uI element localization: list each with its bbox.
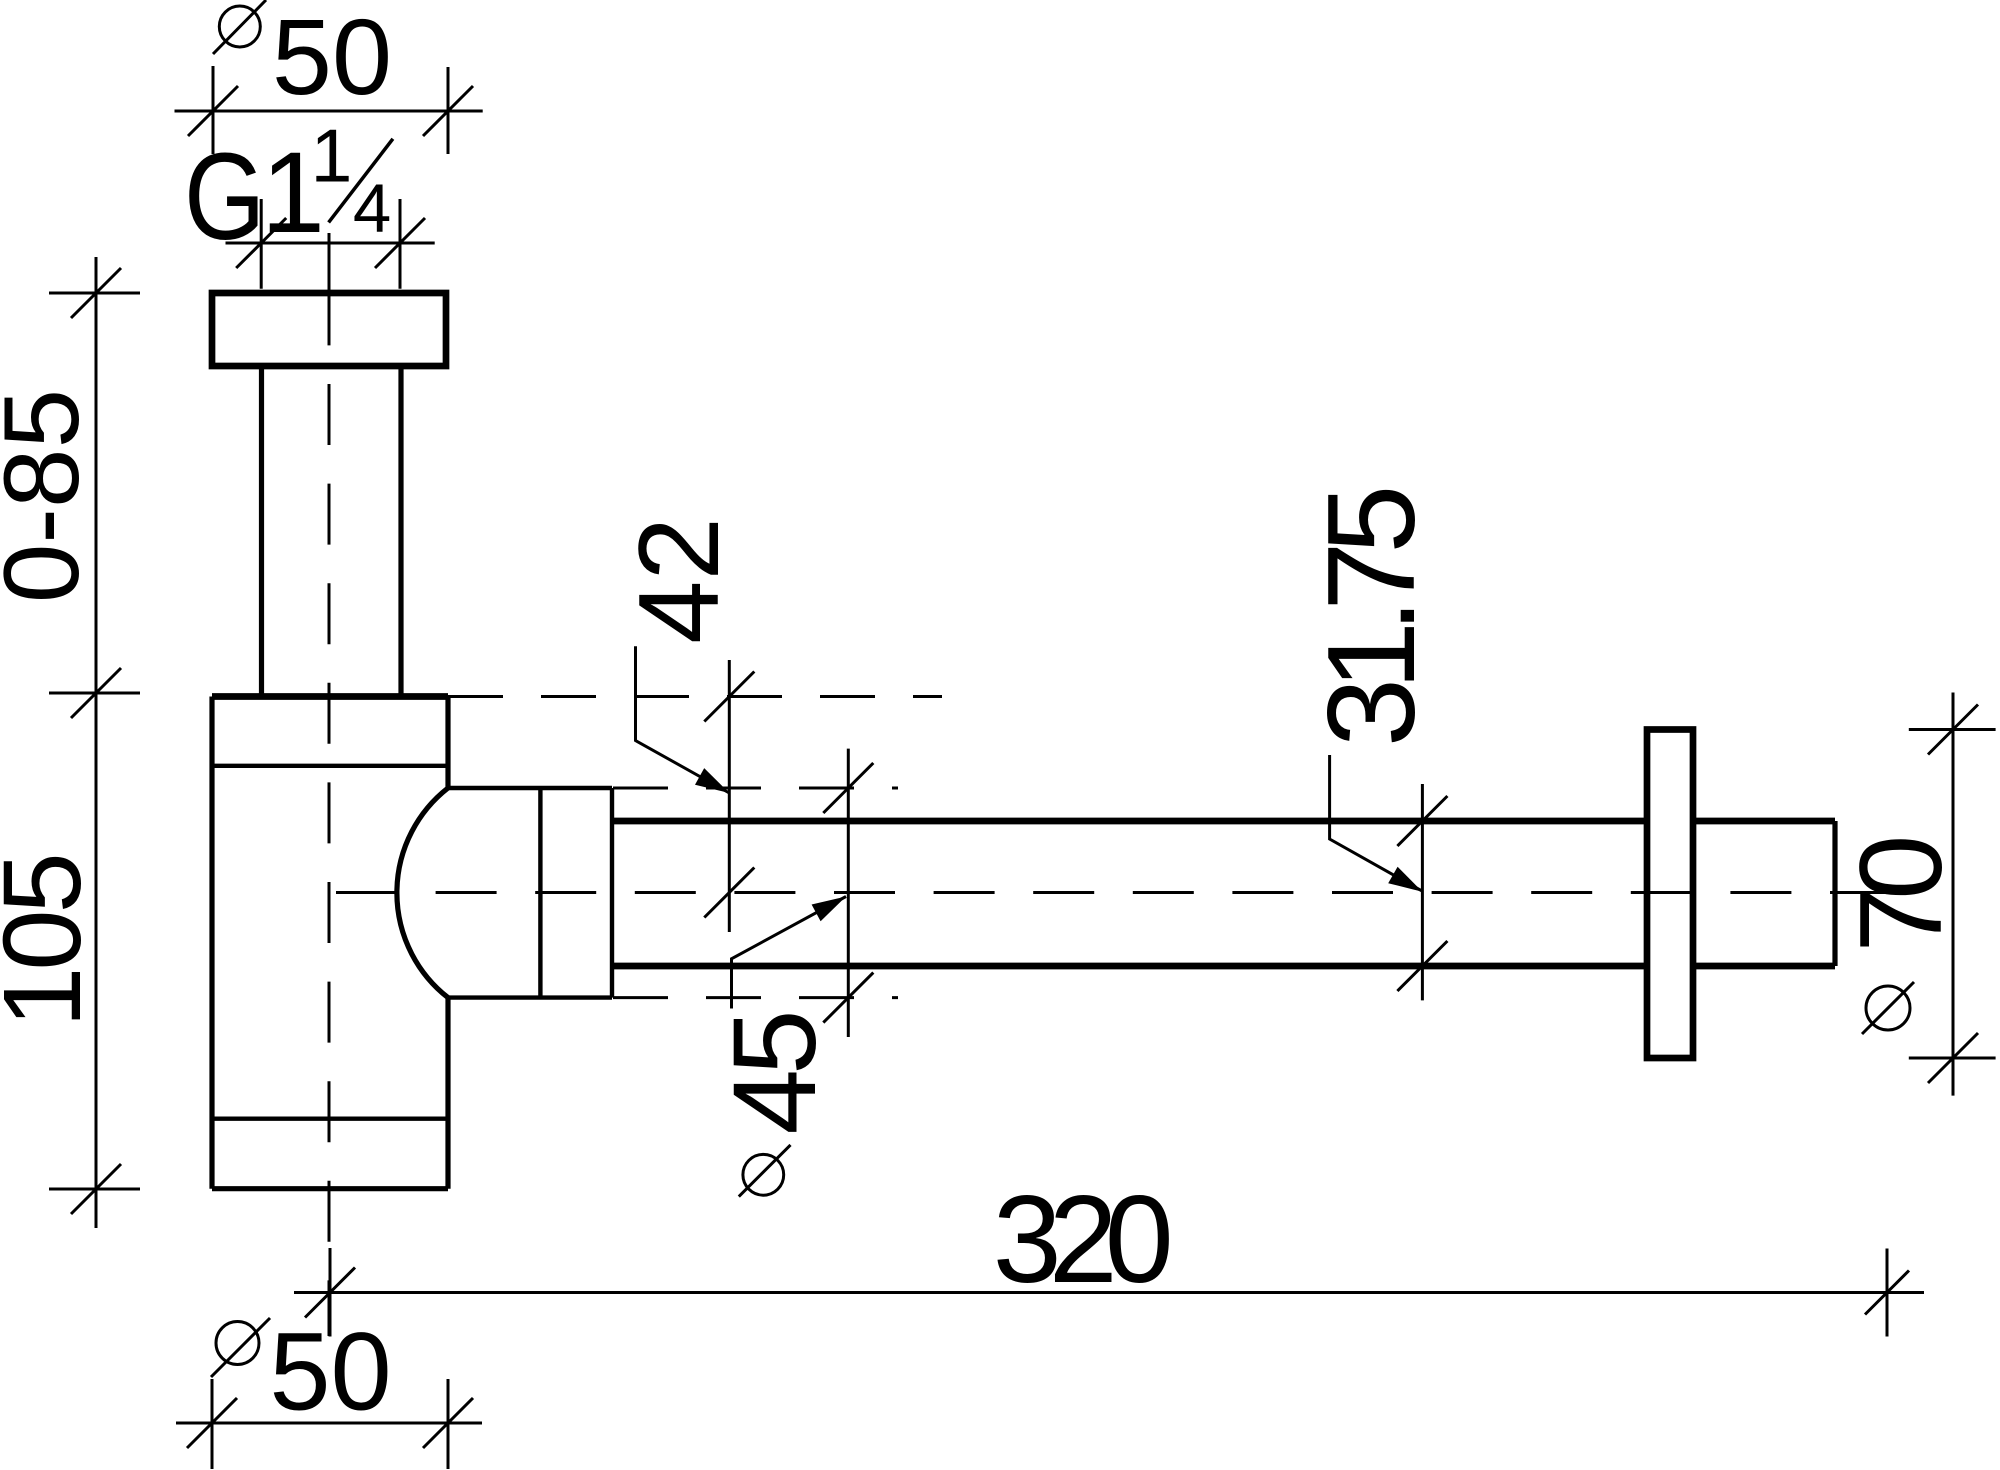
svg-text:45: 45: [709, 1014, 841, 1135]
svg-text:7: 7: [1835, 887, 1966, 952]
svg-text:4: 4: [353, 170, 391, 247]
svg-text:50: 50: [272, 0, 392, 117]
svg-text:320: 320: [993, 1171, 1170, 1309]
svg-text:105: 105: [0, 856, 104, 1028]
svg-text:1: 1: [311, 114, 353, 198]
svg-text:31.75: 31.75: [1303, 490, 1441, 747]
svg-text:42: 42: [616, 517, 743, 644]
svg-text:G: G: [184, 129, 265, 266]
svg-text:50: 50: [269, 1311, 391, 1434]
svg-text:0-85: 0-85: [0, 389, 101, 603]
